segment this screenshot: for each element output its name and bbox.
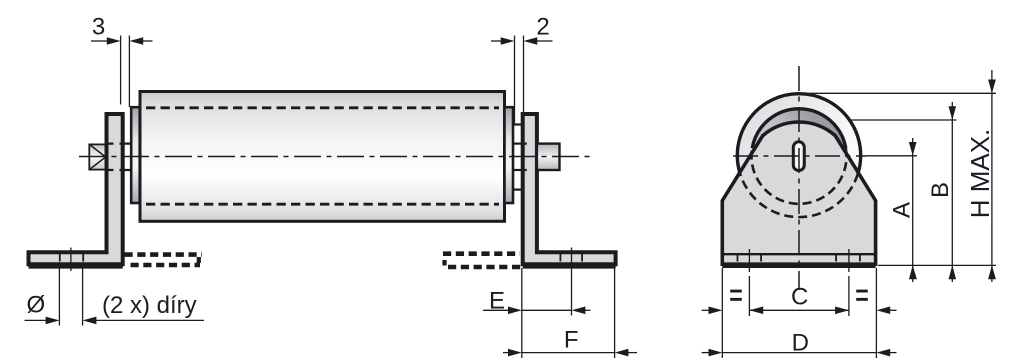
extension line A top bbox=[866, 155, 917, 157]
extension line H MAX top bbox=[803, 92, 996, 94]
dimension C with = = bbox=[702, 307, 897, 315]
right foot bottom thick edge bbox=[523, 264, 616, 269]
dimension H MAX vertical bbox=[988, 70, 996, 282]
shaft lines between right cap and right plate bbox=[513, 144, 527, 170]
outer roller disk (ring fill) bbox=[737, 94, 860, 217]
hidden bore dashed lines bbox=[146, 108, 499, 204]
base hole centerlines bbox=[749, 249, 849, 272]
hole diameter dimension (lower left) bbox=[25, 268, 205, 326]
right bracket (plate + foot) bbox=[523, 114, 616, 264]
left foot bottom thick edge bbox=[29, 264, 123, 269]
svg-text:E: E bbox=[489, 288, 505, 315]
hidden inner circle (dashed arc) bbox=[752, 148, 847, 204]
left foot hole centerline bbox=[70, 248, 72, 272]
end bracket bottom thick edge bbox=[722, 264, 875, 268]
extension line bottom right bbox=[878, 264, 996, 266]
dimension 3 bbox=[91, 36, 153, 108]
outer circle solid arc bbox=[737, 94, 860, 174]
dimension D bbox=[702, 349, 897, 357]
label = left bbox=[730, 290, 742, 301]
svg-text:F: F bbox=[564, 327, 579, 354]
inner circle solid arc bbox=[752, 109, 846, 148]
hidden outer circle (dashed arc) bbox=[740, 174, 858, 217]
svg-text:Ø: Ø bbox=[27, 292, 46, 319]
svg-text:3: 3 bbox=[92, 14, 105, 41]
dimension F bbox=[503, 268, 637, 358]
svg-text:A: A bbox=[889, 202, 916, 218]
left bracket (plate + foot) bbox=[29, 114, 123, 264]
dimension E bbox=[483, 268, 591, 316]
base strip ticks bbox=[738, 255, 860, 262]
extension lines bottom (C,D) bbox=[722, 268, 876, 358]
right foot hole centerline / E extension bbox=[571, 248, 573, 316]
roller body bbox=[140, 92, 505, 222]
hub lines between right cap and right plate bbox=[513, 125, 523, 190]
inner bearing disk (crescent fill) bbox=[752, 109, 847, 204]
left end cap bbox=[131, 107, 140, 203]
extension line B top bbox=[848, 119, 957, 121]
shaft line ticks across right plate bbox=[525, 144, 527, 170]
slot in bracket bbox=[793, 142, 804, 171]
end view horizontal centerline bbox=[733, 155, 866, 157]
shaft stub right bbox=[537, 144, 560, 170]
svg-text:H MAX.: H MAX. bbox=[965, 129, 995, 219]
left rail dashed continuation bbox=[125, 255, 203, 265]
dimension A vertical bbox=[909, 138, 917, 282]
left foot hole ticks bbox=[60, 253, 83, 262]
end bracket base strip line bbox=[722, 253, 875, 255]
svg-text:B: B bbox=[927, 182, 954, 198]
right rail dashed continuation bbox=[443, 254, 522, 267]
svg-text:D: D bbox=[792, 330, 809, 357]
dimension 2 bbox=[491, 36, 553, 127]
end bracket body bbox=[722, 122, 875, 264]
right end cap bbox=[505, 107, 514, 203]
svg-text:(2 x) díry: (2 x) díry bbox=[102, 292, 197, 319]
svg-text:C: C bbox=[791, 284, 808, 311]
centerline (roller axis) bbox=[79, 156, 592, 158]
end view vertical centerline bbox=[798, 66, 800, 290]
shaft between left plate and cap bbox=[108, 144, 131, 170]
svg-text:2: 2 bbox=[536, 14, 549, 41]
dimension B vertical bbox=[949, 102, 957, 282]
label = right bbox=[856, 290, 868, 301]
hex shaft end block bbox=[89, 144, 106, 169]
right foot hole ticks bbox=[560, 253, 582, 262]
